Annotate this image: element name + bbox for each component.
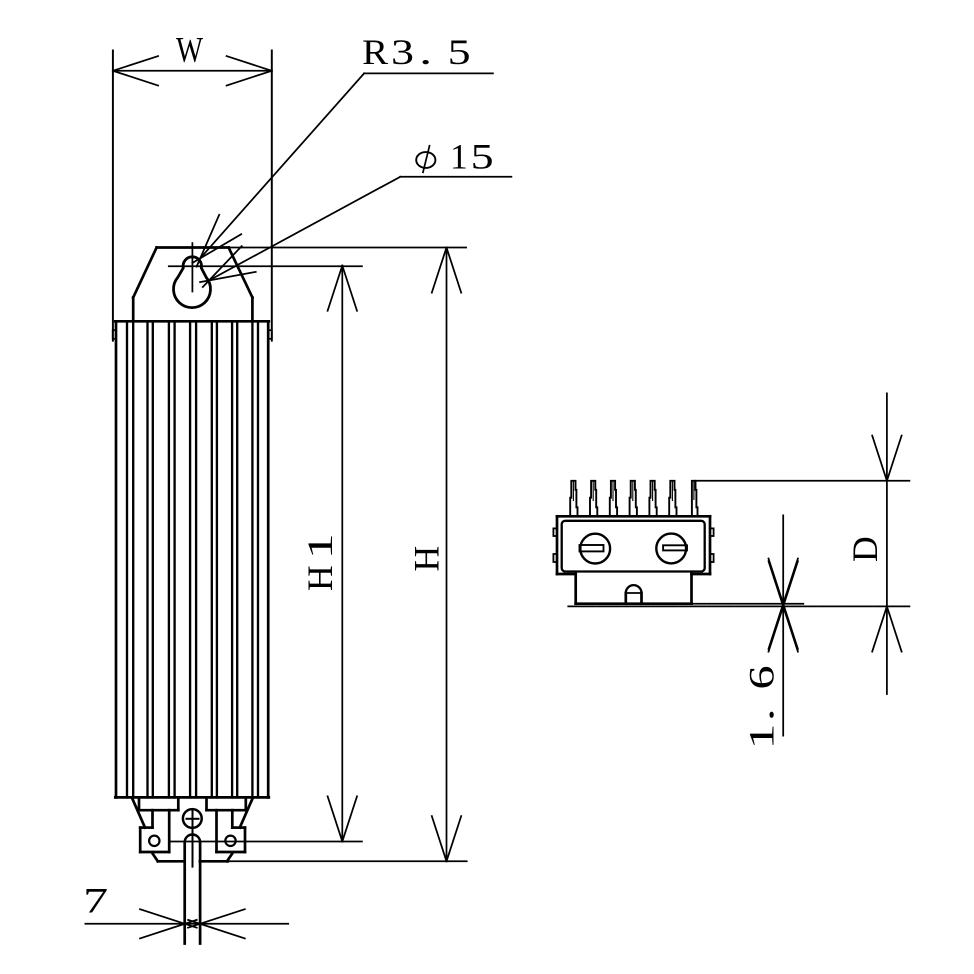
dimension 1.6 tick marks [769, 559, 798, 649]
bottom bracket neck outer edges [151, 810, 154, 827]
side tabs left [553, 528, 557, 536]
side body top edge [557, 515, 710, 518]
terminal block hole left [149, 836, 159, 846]
right mounting tab [268, 330, 272, 339]
dimension D arrowhead top [872, 436, 887, 481]
terminal lug left edge [183, 842, 186, 943]
side fins [570, 481, 577, 517]
svg-text:D: D [845, 536, 885, 562]
svg-text:6: 6 [741, 666, 781, 690]
terminal block hole right [225, 836, 235, 846]
dimension W arrowhead right [227, 56, 272, 71]
dimension H bottom extension line [228, 860, 467, 862]
top bracket left slant [133, 248, 156, 298]
side end fin [692, 481, 698, 517]
side inner cover outline [562, 521, 705, 572]
side skirt bottom edge + 1.6 top extension [576, 602, 692, 605]
svg-text:H: H [406, 546, 446, 572]
bottom plate left slant [152, 853, 158, 861]
dimension D line [886, 393, 888, 694]
svg-text:1: 1 [300, 533, 340, 559]
svg-text:5: 5 [448, 32, 471, 72]
terminal block right [244, 828, 247, 852]
dimension W extension line right [271, 51, 273, 341]
dimension H arrowhead bottom [432, 816, 447, 861]
side body left edge [556, 516, 559, 574]
top bracket top edge + H extension line [157, 246, 229, 249]
dimension W arrowhead left [113, 56, 158, 71]
leader R3.5 underline [364, 72, 493, 74]
dimension W extension line left [112, 51, 114, 341]
bottom bracket left slant [132, 797, 145, 827]
dimension H arrowhead top [432, 248, 447, 293]
terminal lug arch [185, 835, 200, 843]
svg-text:R: R [362, 32, 388, 72]
heatsink fin bottom edge [115, 796, 268, 799]
side body right edge [709, 516, 712, 574]
side mounting plane line + extension [568, 605, 909, 607]
svg-text:.: . [741, 708, 781, 721]
top bracket right slant [229, 248, 253, 298]
top bracket left edge [132, 298, 135, 322]
dimension H1 arrowhead bottom [328, 796, 343, 841]
svg-text:1: 1 [450, 136, 468, 176]
dimension D top extension line [696, 480, 910, 482]
dimension H line [446, 248, 448, 862]
side lug end view [626, 585, 642, 593]
heatsink fin lines [126, 321, 128, 797]
keyhole vertical centerline [191, 243, 193, 291]
center screw head [183, 809, 202, 828]
top bracket right edge [251, 298, 254, 322]
leader phi15 arrowhead [200, 272, 256, 282]
keyhole horizontal centerline + H1 extension line [169, 265, 362, 267]
leader R3.5 line [200, 73, 364, 258]
terminal lug right edge [199, 842, 202, 943]
side body bottom edges [557, 573, 576, 576]
dimension H1 arrowhead top [328, 266, 343, 311]
heatsink body right edge [267, 321, 270, 797]
svg-text:W: W [176, 30, 203, 70]
bottom bracket collar bottom edges [139, 809, 178, 812]
center screw / lug centerline [192, 811, 194, 867]
leader phi15 line [209, 177, 400, 281]
keyhole mounting slot [174, 257, 211, 308]
side tabs right [710, 528, 714, 536]
dimension 7 arrowhead right [188, 909, 245, 928]
leader phi15 underline [400, 176, 511, 178]
svg-text:7: 7 [83, 880, 108, 920]
side screw right [656, 534, 686, 564]
svg-text:5: 5 [471, 136, 494, 176]
dimension 7 line [85, 923, 288, 925]
bottom bracket collar right edge [244, 797, 247, 810]
svg-text:H: H [300, 565, 340, 591]
heatsink fin top edge [115, 320, 268, 323]
terminal block left [139, 828, 142, 852]
bottom plate edge [158, 860, 185, 863]
side skirt right edge [690, 574, 693, 604]
dimension 7 arrowhead left [140, 909, 197, 928]
bottom bracket center column edges [177, 797, 180, 810]
dimension W line [113, 70, 272, 72]
dimension D arrowhead bottom [872, 606, 887, 651]
label phi15 phi symbol [416, 152, 435, 168]
bottom bracket collar left edge [138, 797, 141, 810]
heatsink body left edge [115, 321, 118, 797]
svg-text:1: 1 [741, 724, 781, 750]
bottom bracket right slant [240, 797, 253, 827]
dimension 1.6 line [782, 515, 784, 735]
bottom bracket step edges [140, 826, 152, 829]
dimension H1 line [341, 266, 343, 842]
left mounting tab [113, 330, 116, 339]
dimension H1 bottom extension line [169, 841, 362, 843]
svg-text:.: . [419, 32, 432, 72]
leader R3.5 arrowhead [192, 234, 241, 263]
side skirt left edge [574, 574, 577, 604]
side screw left [580, 534, 610, 564]
bottom bracket neck inner edges [168, 810, 171, 852]
svg-text:3: 3 [391, 32, 414, 72]
bottom plate right slant [227, 853, 233, 861]
